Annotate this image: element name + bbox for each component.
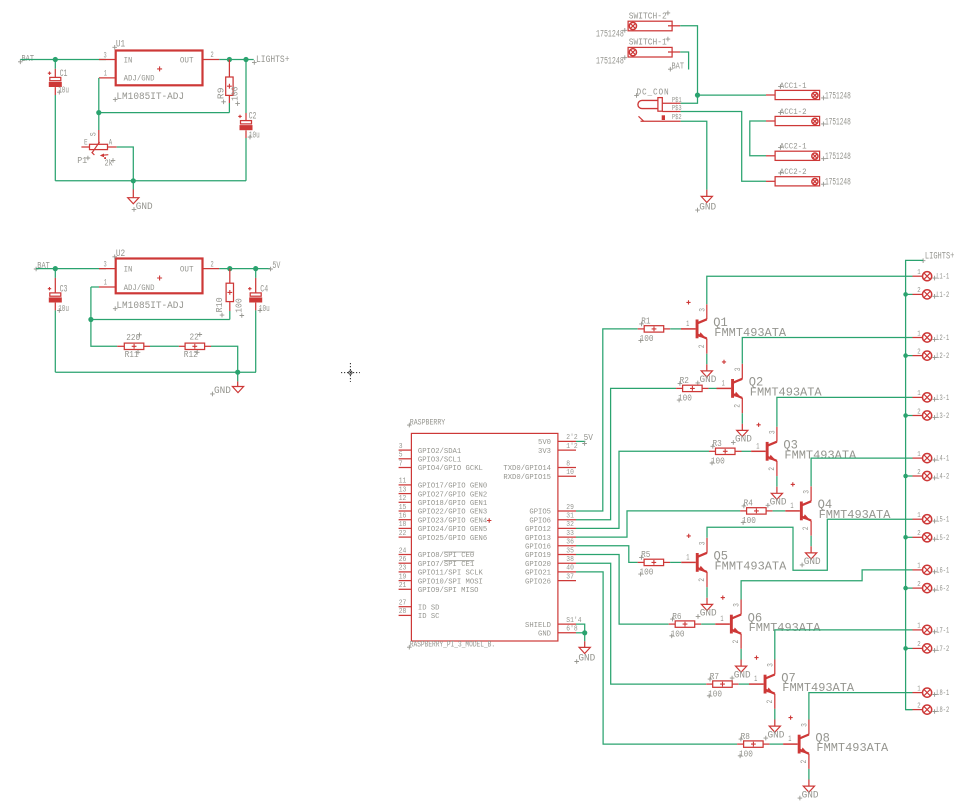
- svg-text:R2: R2: [680, 375, 689, 386]
- svg-text:SWITCH-1: SWITCH-1: [629, 37, 667, 48]
- svg-text:1: 1: [754, 675, 757, 684]
- connector L7-2: [913, 641, 950, 654]
- svg-text:GPIO16: GPIO16: [525, 544, 551, 552]
- connector ACC2-1: [766, 143, 820, 161]
- svg-text:L6-1: L6-1: [936, 566, 949, 575]
- wire junction to ACC1-1: [698, 94, 767, 96]
- svg-text:1: 1: [917, 330, 920, 338]
- svg-text:GND: GND: [700, 374, 717, 385]
- svg-text:100: 100: [640, 567, 654, 578]
- svg-text:GND: GND: [735, 434, 752, 445]
- connector L1-1: [913, 269, 950, 282]
- svg-text:3: 3: [399, 443, 403, 451]
- pin 1'2 (3V3) of RASPBERRY: [538, 443, 578, 456]
- svg-text:RASPBERRY: RASPBERRY: [410, 417, 446, 427]
- pin 36 (GPIO16) of RASPBERRY: [525, 539, 576, 552]
- wire U1 OUT to LIGHTS+: [219, 59, 253, 61]
- wire Q1 collector to L1-1: [707, 276, 913, 304]
- wire GND pin: [576, 632, 585, 634]
- op-amp U2 LM1085IT-ADJ regulator box: [99, 248, 219, 311]
- svg-text:L4-2: L4-2: [936, 473, 949, 482]
- svg-text:LM1085IT-ADJ: LM1085IT-ADJ: [116, 91, 184, 102]
- svg-text:A: A: [109, 138, 113, 147]
- pin 18 (GPIO24/GPIO GEN5) of RASPBERRY: [399, 521, 488, 534]
- pin 1 (ADJ) of U2: [99, 286, 116, 288]
- wire Q6 collector to L6-1: [741, 570, 912, 600]
- svg-text:1: 1: [686, 553, 689, 562]
- svg-text:2: 2: [917, 348, 920, 356]
- svg-text:GPIO9/SPI MISO: GPIO9/SPI MISO: [418, 587, 479, 595]
- svg-text:GND: GND: [699, 201, 716, 212]
- pin 38 (GPIO20) of RASPBERRY: [525, 556, 576, 569]
- svg-text:1751248: 1751248: [825, 177, 851, 188]
- svg-text:2: 2: [917, 287, 920, 295]
- svg-text:2: 2: [766, 700, 775, 704]
- svg-text:FMMT493ATA: FMMT493ATA: [784, 448, 857, 462]
- wire Q8 collector to L8-1: [809, 693, 913, 720]
- svg-text:BAT: BAT: [22, 53, 35, 64]
- resistor R1 100: [638, 316, 671, 344]
- svg-text:32: 32: [566, 521, 574, 529]
- svg-text:TXD0/GPIO14: TXD0/GPIO14: [503, 465, 551, 473]
- connector L2-2: [913, 348, 950, 361]
- svg-text:SHIELD: SHIELD: [525, 622, 551, 630]
- capacitor C1 10u: [48, 68, 69, 96]
- wire C3 bottom to GND rail: [54, 310, 56, 372]
- svg-text:26: 26: [399, 556, 407, 564]
- node junction L6-2: [903, 586, 908, 591]
- svg-text:GPIO17/GPIO GEN0: GPIO17/GPIO GEN0: [418, 483, 488, 491]
- ground symbol RASPBERRY: [574, 633, 595, 664]
- svg-text:2: 2: [733, 404, 742, 408]
- node junction BAT/C1: [53, 57, 58, 62]
- ground symbol Q4: [800, 546, 821, 567]
- wire SWITCH-2 to DC jack net: [680, 26, 697, 95]
- wire L7-2 stub: [906, 647, 913, 649]
- pin 2 (OUT) of U2: [203, 268, 220, 270]
- connector L2-1: [913, 330, 950, 343]
- svg-text:GPIO20: GPIO20: [525, 561, 551, 569]
- svg-text:3: 3: [699, 541, 708, 545]
- svg-text:LIGHTS+: LIGHTS+: [256, 54, 290, 65]
- svg-text:GND: GND: [136, 201, 153, 212]
- svg-text:ID SC: ID SC: [418, 613, 440, 621]
- svg-text:GPIO2/SDA1: GPIO2/SDA1: [418, 448, 462, 456]
- node junction L7-2: [903, 646, 908, 651]
- svg-text:3V3: 3V3: [538, 448, 551, 456]
- svg-text:1: 1: [104, 70, 107, 79]
- ground symbol DC_CON: [695, 190, 716, 213]
- svg-text:100: 100: [234, 298, 245, 313]
- svg-text:19: 19: [399, 573, 407, 581]
- svg-text:2'2: 2'2: [566, 434, 577, 442]
- wire U2 GND rail: [55, 371, 256, 373]
- svg-text:5: 5: [399, 452, 403, 460]
- connector L4-1: [913, 451, 950, 464]
- svg-text:P$1: P$1: [672, 97, 682, 105]
- transistor Q2 FMMT493ATA: [717, 360, 823, 413]
- value 1751248 (ACC1-1): [821, 90, 851, 101]
- wire GPIO13 to base resistor: [576, 511, 740, 537]
- pin 8 (TXD0/GPIO14) of RASPBERRY: [503, 460, 576, 473]
- svg-text:L1-1: L1-1: [936, 273, 949, 282]
- value 1751248 (ACC2-2): [821, 177, 851, 188]
- ground symbol Q5: [696, 598, 717, 619]
- svg-text:L7-1: L7-1: [936, 626, 949, 635]
- wire L3-2 stub: [906, 415, 913, 417]
- svg-text:R1: R1: [641, 316, 651, 327]
- transistor Q3 FMMT493ATA: [751, 423, 857, 476]
- svg-text:100: 100: [708, 688, 722, 699]
- svg-text:R8: R8: [741, 731, 750, 742]
- svg-text:3: 3: [698, 308, 707, 312]
- svg-text:2: 2: [917, 702, 920, 710]
- wire Q2 collector to L2-1: [742, 338, 912, 364]
- wire L2-2 stub: [906, 355, 913, 357]
- svg-text:GPIO11/SPI SCLK: GPIO11/SPI SCLK: [418, 570, 483, 578]
- svg-text:3: 3: [104, 260, 107, 269]
- svg-text:2: 2: [800, 760, 809, 764]
- svg-text:RXD0/GPIO15: RXD0/GPIO15: [503, 474, 551, 482]
- ground symbol U2: [210, 372, 244, 396]
- svg-text:100: 100: [739, 748, 753, 759]
- svg-text:1: 1: [686, 320, 689, 329]
- wire Q4 emitter to ground: [810, 536, 812, 547]
- node junction OUT/R10: [227, 266, 232, 271]
- svg-text:GPIO26: GPIO26: [525, 578, 551, 586]
- svg-text:1751248: 1751248: [596, 56, 624, 67]
- wire SHIELD to GND junction: [576, 624, 585, 633]
- resistor R3 100: [709, 438, 742, 466]
- node junction U2 GND: [235, 370, 240, 375]
- net label 5V (U2 output): [268, 260, 280, 271]
- svg-text:R7: R7: [710, 671, 719, 682]
- wire R7 to Q7 base: [739, 683, 749, 685]
- connector DC_CON barrel jack: [634, 87, 682, 122]
- svg-text:2: 2: [917, 530, 920, 538]
- wire LIGHTS+ rail: [906, 260, 924, 709]
- svg-text:100: 100: [229, 86, 240, 101]
- svg-text:ADJ/GND: ADJ/GND: [124, 283, 155, 293]
- pin 31 (GPIO6) of RASPBERRY: [529, 513, 576, 526]
- resistor R6 100: [669, 611, 702, 639]
- wire DC_CON P$2 to GND: [681, 121, 707, 189]
- node junction BAT/C3: [53, 266, 58, 271]
- wire U2 ADJ net: [91, 287, 230, 320]
- svg-text:GPIO27/GPIO GEN2: GPIO27/GPIO GEN2: [418, 491, 487, 499]
- pin 2'2 (5V0) of RASPBERRY: [538, 434, 578, 447]
- wire R3 to Q3 base: [742, 450, 752, 452]
- svg-text:1751248: 1751248: [825, 90, 851, 101]
- pin 19 (GPIO10/SPI MOSI) of RASPBERRY: [399, 573, 483, 586]
- svg-text:L7-2: L7-2: [936, 645, 949, 654]
- svg-text:L1-2: L1-2: [936, 291, 949, 300]
- svg-text:ACC1-2: ACC1-2: [780, 108, 807, 117]
- svg-text:RASPBERRY_PI_3_MODEL_B.: RASPBERRY_PI_3_MODEL_B.: [410, 639, 495, 649]
- wire Q3 emitter to ground: [776, 476, 778, 487]
- transistor Q7 FMMT493ATA: [749, 656, 855, 709]
- sheet origin marker: [341, 363, 360, 382]
- svg-text:10: 10: [566, 469, 574, 477]
- value 1751248 (SWITCH-1): [596, 55, 627, 66]
- wire R11 to R12: [150, 345, 179, 347]
- node junction switch/jack/ACC1-1: [695, 93, 700, 98]
- net label LIGHTS+ (lamp rail): [921, 251, 955, 263]
- node junction OUT/C2: [243, 57, 248, 62]
- svg-text:3: 3: [800, 723, 809, 727]
- resistor R4 100: [740, 498, 773, 526]
- node junction OUT/R9: [227, 57, 232, 62]
- node junction OUT/C4: [253, 266, 258, 271]
- pin P$2 of DC_CON (switch): [641, 120, 681, 122]
- svg-text:R12: R12: [184, 349, 198, 360]
- wire GPIO21 to base resistor: [576, 572, 737, 744]
- svg-text:1: 1: [756, 442, 759, 451]
- ground symbol Q3: [766, 487, 787, 508]
- svg-text:18: 18: [399, 521, 407, 529]
- wire R8 to Q8 base: [770, 743, 784, 745]
- wire L4-2 stub: [906, 475, 913, 477]
- node junction L3-2: [903, 413, 908, 418]
- svg-text:3: 3: [803, 490, 812, 494]
- wire L8-2 stub: [906, 709, 913, 711]
- wire C1 top stub: [54, 60, 56, 69]
- wire R2 to Q2 base: [709, 387, 717, 389]
- wire GPIO5 to base resistor: [576, 329, 638, 511]
- svg-text:2: 2: [917, 469, 920, 477]
- svg-text:1: 1: [720, 615, 723, 624]
- wire GPIO19 to base resistor: [576, 555, 669, 625]
- svg-text:GPIO23/GPIO GEN4: GPIO23/GPIO GEN4: [418, 517, 488, 525]
- transistor Q1 FMMT493ATA: [681, 300, 787, 353]
- connector L5-1: [913, 512, 950, 525]
- svg-text:BAT: BAT: [37, 260, 50, 271]
- net label 5V (RASPBERRY): [582, 432, 593, 446]
- svg-text:E: E: [84, 139, 88, 148]
- svg-text:GPIO21: GPIO21: [525, 570, 551, 578]
- svg-text:P1: P1: [77, 155, 87, 166]
- svg-text:GPIO18/GPIO GEN1: GPIO18/GPIO GEN1: [418, 500, 488, 508]
- svg-text:C3: C3: [60, 284, 68, 295]
- node junction SHIELD/GND: [582, 630, 587, 635]
- ground symbol Q1: [696, 364, 717, 385]
- svg-text:R11: R11: [125, 349, 139, 360]
- svg-text:U1: U1: [116, 39, 125, 50]
- pin P$1 of DC_CON: [662, 102, 680, 104]
- resistor R2 100: [676, 375, 709, 403]
- svg-text:GPIO13: GPIO13: [525, 535, 551, 543]
- svg-text:100: 100: [678, 393, 692, 404]
- wire ADJ junction down to R11: [91, 320, 117, 347]
- svg-text:22: 22: [399, 530, 407, 538]
- svg-text:P$3: P$3: [672, 105, 682, 113]
- value 1751248 (ACC2-1): [821, 151, 851, 162]
- svg-text:10u: 10u: [58, 85, 69, 96]
- pin 21 (GPIO9/SPI MISO) of RASPBERRY: [399, 582, 479, 595]
- connector L6-1: [913, 563, 950, 576]
- svg-text:GND: GND: [768, 729, 785, 740]
- wire Q1 emitter to ground: [706, 354, 708, 365]
- wire BAT to U2 pin 3: [36, 268, 106, 270]
- pin 24 (GPIO8/SPI CE0) of RASPBERRY: [399, 547, 475, 560]
- resistor R12 22: [179, 332, 211, 360]
- pin 3 (IN) of U2: [99, 268, 116, 270]
- svg-text:1751248: 1751248: [825, 116, 851, 127]
- ground symbol Q8: [798, 780, 819, 801]
- pin 6'8 (GND) of RASPBERRY: [538, 626, 578, 639]
- svg-text:FMMT493ATA: FMMT493ATA: [816, 741, 889, 755]
- svg-text:R4: R4: [744, 498, 754, 509]
- wire Q7 emitter to ground: [774, 709, 776, 720]
- pin 37 (GPIO26) of RASPBERRY: [525, 573, 576, 586]
- svg-text:3: 3: [733, 603, 742, 607]
- svg-text:FMMT493ATA: FMMT493ATA: [749, 621, 822, 635]
- transistor Q8 FMMT493ATA: [783, 716, 889, 769]
- svg-text:2k: 2k: [105, 158, 114, 169]
- svg-text:ID SD: ID SD: [418, 604, 440, 612]
- svg-text:12: 12: [399, 495, 407, 503]
- svg-text:27: 27: [399, 600, 407, 608]
- wire C2 bottom to GND rail: [245, 138, 247, 181]
- connector ACC1-2: [766, 108, 820, 126]
- svg-text:13: 13: [399, 486, 407, 494]
- svg-text:2: 2: [732, 640, 741, 644]
- svg-text:GPIO5: GPIO5: [529, 509, 551, 517]
- wire L6-2 stub: [906, 587, 913, 589]
- wire GPIO16 to base resistor: [576, 546, 638, 563]
- net label LIGHTS+ (U1 output): [252, 54, 290, 65]
- wire R6 to Q6 base: [701, 623, 715, 625]
- svg-text:5V: 5V: [584, 432, 594, 443]
- svg-text:1: 1: [788, 735, 791, 744]
- svg-text:BAT: BAT: [672, 60, 685, 71]
- svg-text:1751248: 1751248: [825, 151, 851, 162]
- svg-text:DC_CON: DC_CON: [637, 87, 670, 98]
- trimmer P1 2k: [77, 130, 117, 169]
- svg-text:SWITCH-2: SWITCH-2: [629, 10, 667, 21]
- svg-text:ACC2-1: ACC2-1: [780, 143, 807, 152]
- wire U1 GND rail: [55, 180, 246, 182]
- svg-text:31: 31: [566, 513, 574, 521]
- svg-text:S: S: [90, 132, 99, 136]
- wire Q5 collector to L5-1: [707, 519, 913, 570]
- ground symbol Q6: [730, 660, 751, 681]
- wire R5 to Q5 base: [670, 561, 681, 563]
- svg-text:21: 21: [399, 582, 407, 590]
- wire 5V0 to 5V label: [576, 440, 585, 442]
- resistor R8 100: [737, 731, 770, 759]
- wire GPIO6 to base resistor: [576, 388, 676, 519]
- op-amp RASPBERRY Pi 3 Model B header box: [407, 417, 558, 649]
- svg-text:2: 2: [802, 526, 811, 530]
- svg-text:2: 2: [211, 51, 214, 60]
- svg-text:1: 1: [917, 563, 920, 571]
- svg-text:FMMT493ATA: FMMT493ATA: [715, 559, 788, 573]
- svg-text:100: 100: [742, 515, 756, 526]
- wire GPIO20 to base resistor: [576, 563, 706, 684]
- wire R9 bottom / U1 ADJ net: [99, 78, 230, 113]
- svg-text:33: 33: [566, 530, 574, 538]
- svg-text:R10: R10: [214, 297, 225, 312]
- wire Q8 emitter to ground: [808, 769, 810, 780]
- net label BAT (U2 input): [34, 260, 50, 271]
- connector L4-2: [913, 469, 950, 482]
- wire DC_CON P$1 to junction: [681, 95, 698, 103]
- wire L1-2 stub: [906, 293, 913, 295]
- transistor Q4 FMMT493ATA: [785, 482, 891, 535]
- svg-text:GPIO4/GPIO GCKL: GPIO4/GPIO GCKL: [418, 465, 483, 473]
- connector SWITCH-1: [628, 37, 680, 57]
- svg-text:24: 24: [399, 547, 407, 555]
- svg-text:29: 29: [566, 504, 574, 512]
- pin 3 (IN) of U1: [99, 59, 116, 61]
- ground symbol Q2: [731, 424, 752, 445]
- resistor R11 220: [117, 332, 150, 360]
- ground symbol U1: [128, 181, 153, 212]
- svg-text:3: 3: [766, 663, 775, 667]
- node junction L5-2: [903, 535, 908, 540]
- svg-text:GND: GND: [578, 653, 595, 664]
- svg-text:6'8: 6'8: [566, 626, 577, 634]
- connector SWITCH-2: [628, 10, 680, 30]
- svg-text:IN: IN: [124, 56, 133, 66]
- capacitor C4 10u: [248, 269, 270, 314]
- connector ACC1-1: [766, 82, 820, 100]
- svg-text:L6-2: L6-2: [936, 585, 949, 594]
- pin 7 (GPIO4/GPIO GCKL) of RASPBERRY: [399, 460, 484, 473]
- svg-text:LIGHTS+: LIGHTS+: [925, 251, 955, 262]
- svg-text:GPIO7/SPI CE1: GPIO7/SPI CE1: [418, 561, 475, 569]
- svg-text:GPIO25/GPIO GEN6: GPIO25/GPIO GEN6: [418, 535, 488, 543]
- wire Q5 emitter to ground: [706, 587, 708, 598]
- svg-text:C4: C4: [260, 284, 268, 295]
- pin 28 (ID SC) of RASPBERRY: [399, 608, 440, 621]
- pin 12 (GPIO18/GPIO GEN1) of RASPBERRY: [399, 495, 488, 508]
- wire R1 to Q1 base: [670, 328, 681, 330]
- svg-text:GPIO12: GPIO12: [525, 526, 551, 534]
- svg-text:L3-1: L3-1: [936, 394, 949, 403]
- svg-text:LM1085IT-ADJ: LM1085IT-ADJ: [116, 300, 184, 311]
- wire R4 to Q4 base: [773, 510, 786, 512]
- svg-text:5V0: 5V0: [538, 439, 551, 447]
- svg-text:2: 2: [768, 467, 777, 471]
- svg-text:1: 1: [917, 512, 920, 520]
- svg-text:GPIO3/SCL1: GPIO3/SCL1: [418, 457, 462, 465]
- pin 23 (GPIO11/SPI SCLK) of RASPBERRY: [399, 565, 484, 578]
- pin 26 (GPIO7/SPI CE1) of RASPBERRY: [399, 556, 475, 569]
- pin 15 (GPIO22/GPIO GEN3) of RASPBERRY: [399, 504, 488, 517]
- resistor R10 100: [214, 269, 245, 318]
- svg-text:1: 1: [722, 379, 725, 388]
- svg-text:OUT: OUT: [180, 265, 194, 275]
- svg-text:1: 1: [917, 685, 920, 693]
- svg-text:GPIO8/SPI CE0: GPIO8/SPI CE0: [418, 552, 475, 560]
- svg-text:GPIO24/GPIO GEN5: GPIO24/GPIO GEN5: [418, 526, 488, 534]
- svg-text:GPIO19: GPIO19: [525, 552, 551, 560]
- svg-text:220: 220: [126, 332, 140, 343]
- ground symbol Q7: [764, 720, 785, 741]
- svg-text:IN: IN: [124, 265, 133, 275]
- pin E of P1: [81, 146, 89, 148]
- pin 35 (GPIO19) of RASPBERRY: [525, 547, 576, 560]
- wire Q4 collector to L4-1: [811, 458, 912, 486]
- svg-text:GND: GND: [700, 608, 717, 619]
- resistor R5 100: [638, 549, 671, 577]
- svg-text:ACC2-2: ACC2-2: [780, 168, 807, 177]
- wire Q6 emitter to ground: [740, 649, 742, 660]
- svg-text:2: 2: [211, 260, 214, 269]
- svg-text:R3: R3: [713, 438, 722, 449]
